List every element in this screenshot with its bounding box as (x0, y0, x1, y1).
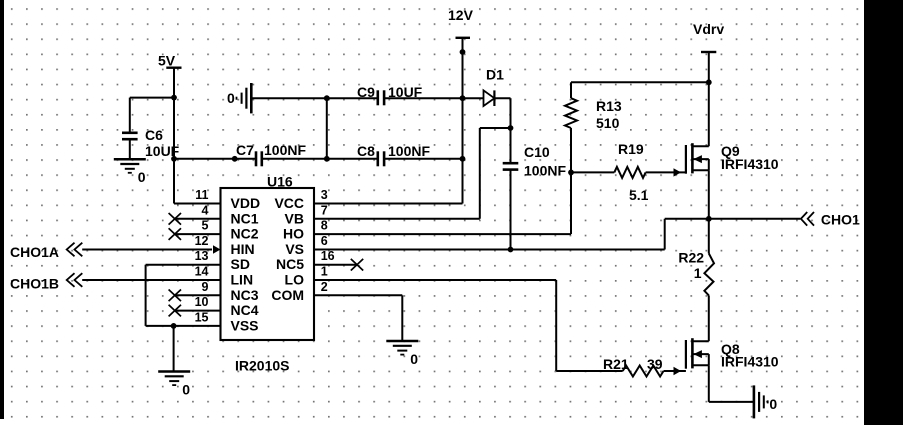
svg-text:16: 16 (321, 249, 335, 263)
wire SD pin 13 (146, 265, 221, 326)
wire VCC pin 3 (314, 203, 463, 205)
pin number 14 (195, 265, 209, 279)
svg-text:NC3: NC3 (231, 287, 259, 303)
wire 5V vertical to VDD pin 11 (174, 68, 221, 204)
pin number 6 (321, 234, 328, 248)
svg-text:Vdrv: Vdrv (693, 21, 724, 37)
svg-text:7: 7 (321, 203, 328, 217)
label D1 (486, 67, 504, 83)
svg-text:100NF: 100NF (524, 163, 566, 179)
svg-text:C9: C9 (357, 84, 375, 100)
label R21 value (603, 356, 663, 372)
junction CHO1 node (706, 216, 712, 222)
wire HIN pin 12 (82, 249, 212, 251)
svg-text:0: 0 (227, 90, 235, 106)
svg-text:2: 2 (321, 280, 328, 294)
svg-text:NC1: NC1 (231, 210, 259, 226)
transistor Q8 (686, 338, 709, 369)
svg-text:39: 39 (647, 356, 663, 372)
port CHO1 (801, 212, 860, 228)
no-connect NC2 pin 5 (169, 228, 221, 240)
svg-text:VSS: VSS (231, 317, 259, 333)
resistor R22 (704, 219, 714, 341)
junction 5V/C6 (171, 95, 177, 101)
pin number 1 (321, 265, 328, 279)
svg-text:100NF: 100NF (264, 142, 306, 158)
svg-text:R22: R22 (678, 250, 704, 266)
pin number 8 (321, 219, 328, 233)
left edge black bar (0, 0, 4, 419)
junction D1/C10/VB (508, 125, 514, 131)
wire C9 rail left (251, 97, 377, 99)
svg-text:D1: D1 (486, 67, 504, 83)
svg-text:R13: R13 (596, 98, 622, 114)
svg-text:14: 14 (195, 265, 209, 279)
pin number 4 (202, 203, 209, 217)
wire to CHO1 port (709, 218, 801, 220)
wire LIN pin 14 (82, 279, 220, 281)
wire D1 cathode (494, 98, 510, 128)
svg-text:5: 5 (202, 219, 209, 233)
ground sideways at Q8 (754, 385, 778, 418)
label C9 value (357, 84, 423, 100)
pin name HO (283, 226, 304, 242)
svg-text:NC2: NC2 (231, 226, 259, 242)
pin number 11 (195, 188, 208, 202)
svg-text:12: 12 (195, 234, 209, 248)
pin name VS (285, 241, 304, 257)
resistor R21 (623, 366, 686, 377)
wire C7 rail (174, 158, 256, 160)
svg-text:9: 9 (202, 280, 209, 294)
svg-text:1: 1 (694, 265, 702, 281)
wire VS pin 6 (314, 219, 709, 250)
svg-text:U16: U16 (267, 174, 293, 190)
svg-text:CHO1B: CHO1B (10, 276, 59, 292)
pin number 15 (195, 310, 209, 324)
label Q8 (721, 341, 779, 370)
svg-text:11: 11 (195, 188, 208, 202)
capacitor C6 (122, 133, 138, 159)
pin number 9 (202, 280, 209, 294)
junction VSS/ground (171, 323, 177, 329)
svg-text:IR2010S: IR2010S (235, 358, 289, 374)
wire C7 to C8 (262, 158, 378, 160)
pin number 2 (321, 280, 328, 294)
svg-text:13: 13 (195, 249, 209, 263)
pin number 16 (321, 249, 335, 263)
no-connect NC3 pin 9 (169, 290, 221, 302)
ground below C6 (114, 159, 146, 185)
svg-text:0: 0 (769, 396, 777, 412)
label R19 value (618, 141, 649, 203)
ground below COM (386, 341, 418, 367)
no-connect NC1 pin 4 (169, 213, 221, 225)
svg-text:8: 8 (321, 219, 328, 233)
label R13 value (596, 98, 622, 131)
wire vert C9 rail to C7 rail (326, 98, 328, 159)
pin name NC5 (276, 256, 304, 272)
svg-text:10: 10 (195, 295, 209, 309)
junction C7 left (232, 156, 238, 162)
pin name NC3 (231, 287, 259, 303)
port CHO1A (10, 243, 82, 260)
svg-text:R19: R19 (618, 141, 644, 157)
svg-text:VB: VB (285, 210, 304, 226)
svg-text:HO: HO (283, 226, 304, 242)
pin number 12 (195, 234, 209, 248)
svg-text:LO: LO (285, 272, 305, 288)
svg-text:3: 3 (321, 188, 328, 202)
power symbol 12V (448, 7, 474, 204)
junction C9 rail/12V (460, 95, 466, 101)
svg-text:R21: R21 (603, 356, 629, 372)
junction R13/R19/HO (568, 170, 574, 176)
pin name SD (231, 256, 250, 272)
label C10 value (524, 144, 566, 179)
pin name VCC (274, 195, 304, 211)
junction C10/VS (508, 247, 514, 253)
svg-text:510: 510 (596, 115, 620, 131)
ground sideways at C9 rail (227, 83, 251, 113)
pin number 13 (195, 249, 209, 263)
svg-text:0: 0 (138, 169, 146, 185)
power symbol Vdrv (693, 21, 724, 146)
capacitor C7 (256, 151, 262, 166)
wire VSS to ground (173, 326, 175, 372)
wire COM pin 2 (314, 295, 402, 341)
arrow gate Q9 (674, 168, 682, 176)
port CHO1B (10, 273, 82, 291)
right edge black bar (864, 0, 903, 425)
arrow gate Q8 (674, 367, 682, 375)
svg-text:COM: COM (271, 287, 304, 303)
svg-text:15: 15 (195, 310, 209, 324)
svg-text:C10: C10 (524, 144, 550, 160)
junction C7C8 rail/vert (324, 156, 330, 162)
svg-text:IRFI4310: IRFI4310 (721, 156, 779, 172)
wire C8 to 12V vertical (384, 158, 463, 160)
no-connect NC5 pin 16 (314, 259, 363, 271)
svg-text:C6: C6 (145, 127, 163, 143)
label C6 value (145, 127, 180, 159)
svg-text:C8: C8 (357, 143, 375, 159)
pin number 5 (202, 219, 209, 233)
label C8 value (357, 143, 430, 159)
junction 12V stub (460, 49, 466, 55)
resistor R19 (571, 167, 686, 178)
pin number 3 (321, 188, 328, 202)
pin name NC1 (231, 210, 259, 226)
junction Vdrv/R13 rail (706, 79, 712, 85)
capacitor C10 (503, 128, 519, 250)
svg-text:CHO1: CHO1 (821, 212, 860, 228)
svg-text:C7: C7 (236, 142, 254, 158)
svg-text:6: 6 (321, 234, 328, 248)
capacitor C8 (378, 151, 384, 166)
wire 5V to C6 (130, 98, 174, 134)
wire VSS pin 15 (146, 325, 221, 327)
pin number 10 (195, 295, 209, 309)
diode D1 (484, 90, 495, 106)
svg-text:1: 1 (321, 265, 328, 279)
svg-text:HIN: HIN (231, 241, 255, 257)
pin name NC4 (231, 302, 259, 318)
label U16 (267, 174, 293, 190)
svg-text:CHO1A: CHO1A (10, 244, 59, 260)
svg-text:5V: 5V (158, 53, 176, 69)
wire C9 to D1 (384, 97, 484, 99)
svg-text:0: 0 (410, 351, 418, 367)
pin name COM (271, 287, 304, 303)
svg-text:SD: SD (231, 256, 250, 272)
pin name VSS (231, 317, 259, 333)
wire Q8 source to ground (709, 365, 754, 402)
svg-text:12V: 12V (448, 7, 474, 23)
ground below VSS (158, 372, 190, 398)
svg-text:VCC: VCC (274, 195, 304, 211)
junction C8/12V (460, 156, 466, 162)
pin name HIN (231, 241, 255, 257)
label C7 value (236, 142, 306, 158)
svg-text:VDD: VDD (231, 195, 261, 211)
svg-text:5.1: 5.1 (629, 187, 649, 203)
pin name LIN (231, 272, 254, 288)
svg-text:IRFI4310: IRFI4310 (721, 354, 779, 370)
wire VB pin 7 (314, 128, 511, 219)
wire LO pin 1 (314, 280, 623, 371)
arrow HIN pin (213, 245, 221, 253)
wire Q9 source (708, 170, 710, 219)
pin name NC2 (231, 226, 259, 242)
pin name VDD (231, 195, 261, 211)
resistor R13 (565, 82, 577, 172)
svg-text:NC4: NC4 (231, 302, 259, 318)
svg-text:VS: VS (285, 241, 304, 257)
wire HO pin 8 (314, 172, 571, 234)
pin name VB (285, 210, 304, 226)
no-connect NC4 pin 10 (169, 305, 221, 317)
label R22 value (678, 250, 704, 281)
svg-text:100NF: 100NF (388, 143, 430, 159)
junction 5V/C7 rail (171, 156, 177, 162)
pin number 7 (321, 203, 328, 217)
power symbol 5V (158, 53, 182, 69)
wire Vdrv rail to R13 (571, 81, 709, 83)
transistor Q9 (686, 143, 709, 174)
op-amp U16 body (221, 188, 315, 340)
junction C9 rail/vert (324, 95, 330, 101)
capacitor C9 (378, 90, 384, 105)
svg-text:4: 4 (202, 203, 209, 217)
svg-text:LIN: LIN (231, 272, 254, 288)
label Q9 (721, 143, 779, 172)
pin name LO (285, 272, 305, 288)
svg-text:0: 0 (182, 382, 190, 398)
label IR2010S (235, 358, 289, 374)
svg-text:NC5: NC5 (276, 256, 304, 272)
